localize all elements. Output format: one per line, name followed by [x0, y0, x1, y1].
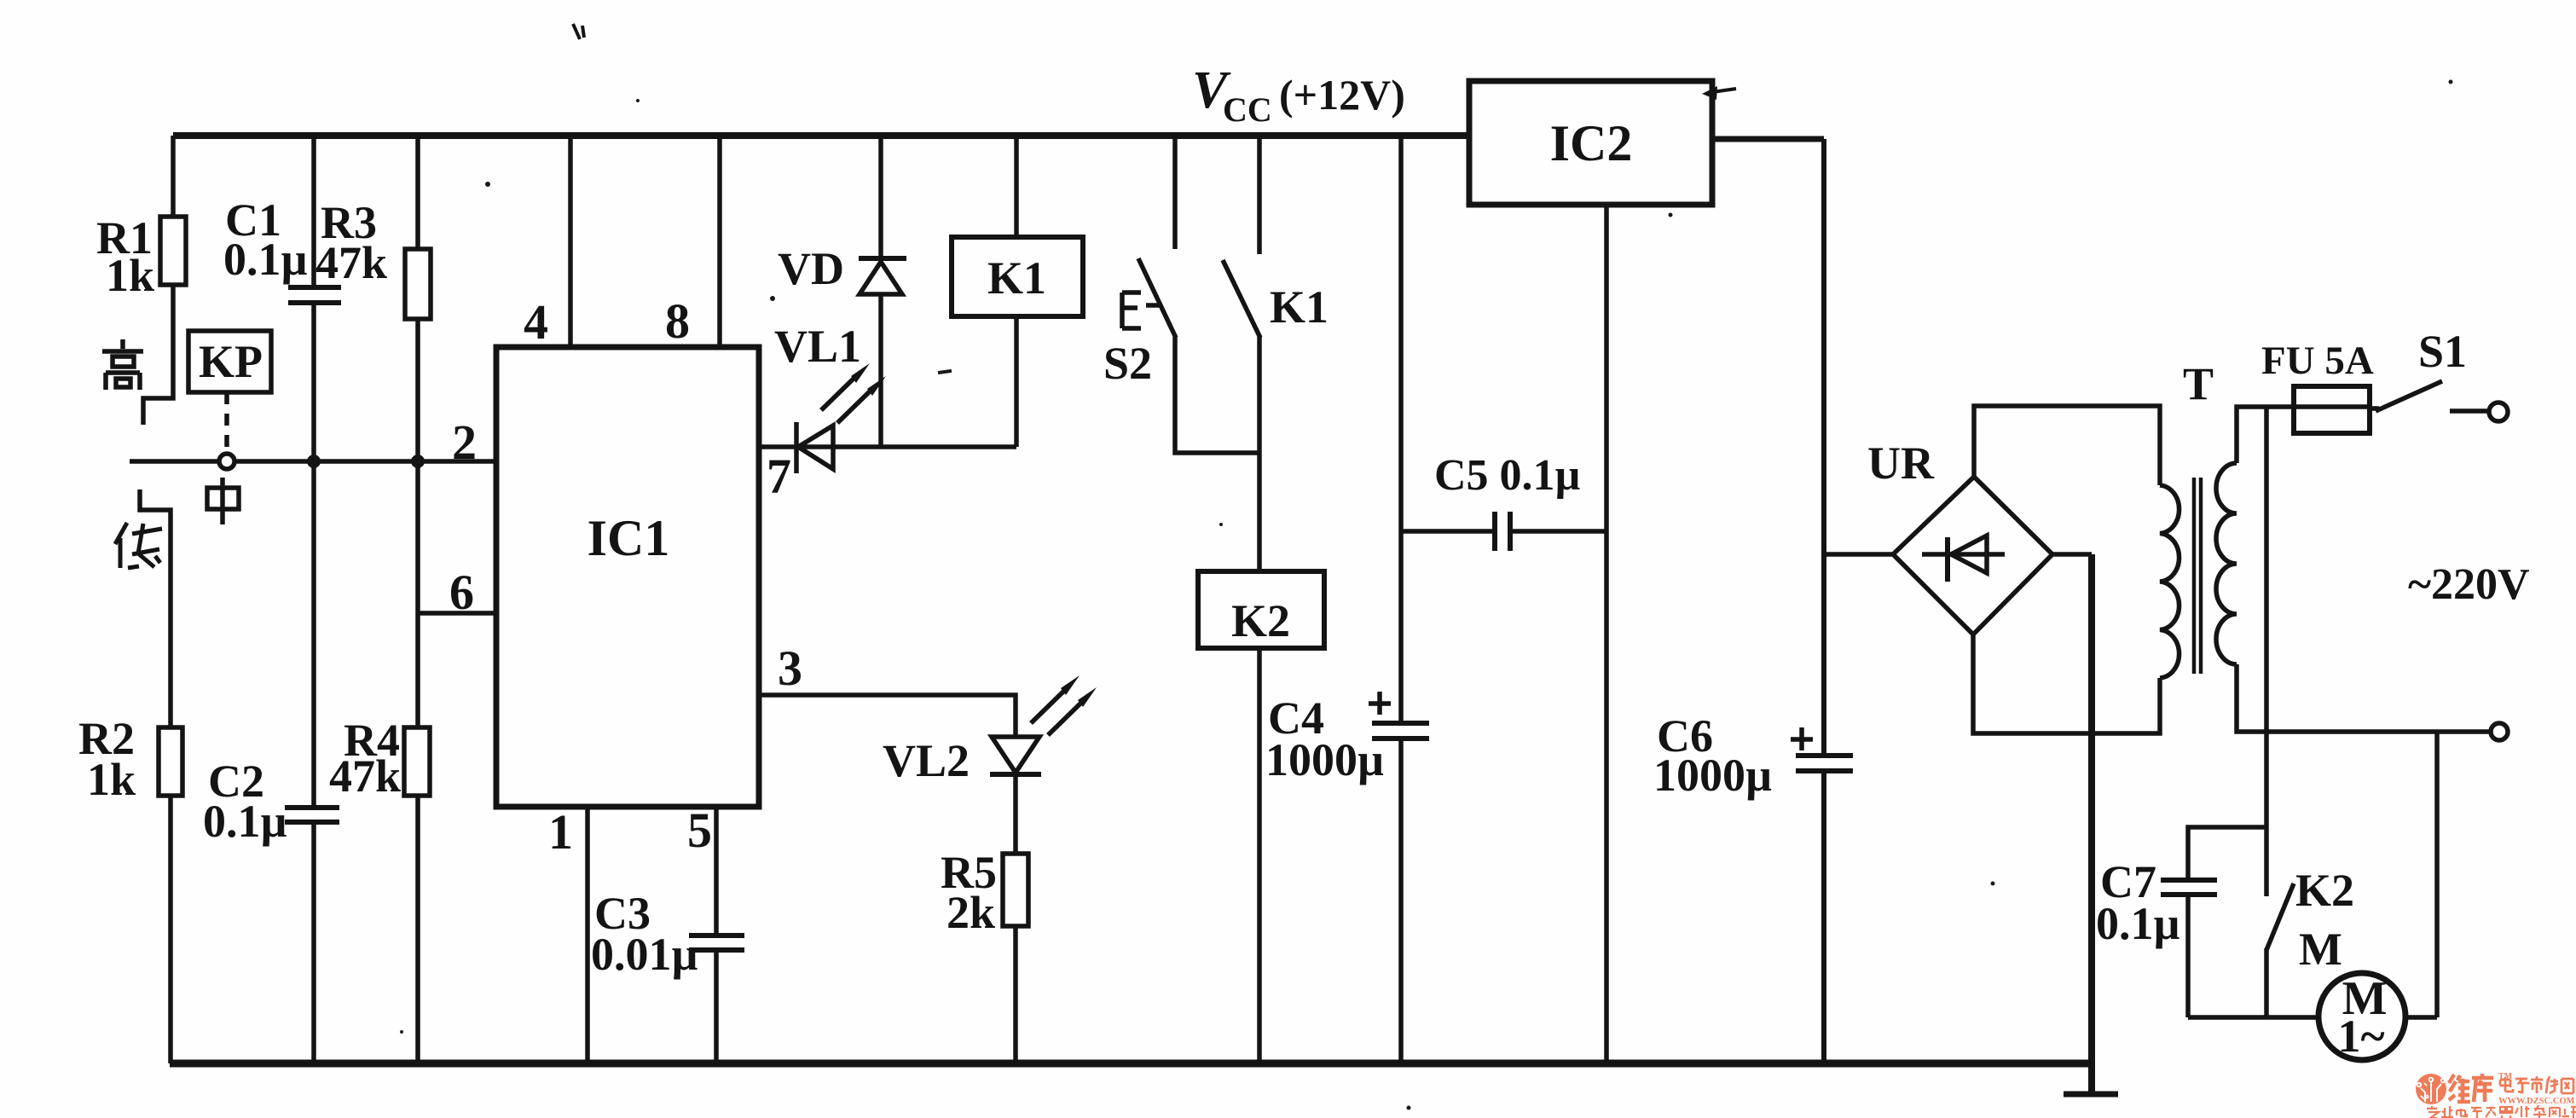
svg-text:47k: 47k	[329, 750, 401, 802]
svg-text:S2: S2	[1103, 338, 1152, 389]
wire motor loop bottom	[2188, 1015, 2437, 1020]
relay coil K2	[1198, 571, 1324, 1063]
svg-text:4: 4	[524, 294, 548, 350]
svg-text:2k: 2k	[946, 887, 995, 938]
svg-text:WWW.DZSC.COM: WWW.DZSC.COM	[2498, 1097, 2575, 1106]
led VL2	[883, 675, 1097, 854]
resistor R4	[329, 461, 430, 1063]
svg-text:1k: 1k	[106, 250, 154, 301]
svg-text:K2: K2	[2295, 865, 2354, 916]
diode VD	[778, 136, 906, 447]
watermark 维库 logo circle	[2416, 1074, 2446, 1104]
watermark TM	[2498, 1072, 2513, 1081]
svg-text:1~: 1~	[2337, 1011, 2384, 1062]
wire IC1 pin 1	[548, 804, 588, 1063]
watermark www.dzsc.com	[2498, 1097, 2575, 1106]
node 高 high contact label	[102, 339, 143, 390]
regulator IC2	[1469, 81, 1736, 205]
svg-text:VD: VD	[778, 243, 844, 294]
svg-text:VL2: VL2	[883, 735, 970, 786]
svg-text:T: T	[2183, 358, 2214, 409]
wire IC2 ground pin	[1604, 205, 1609, 1063]
capacitor C6	[1653, 139, 1853, 1063]
svg-text:K1: K1	[1270, 281, 1329, 333]
wire ground stem	[2088, 554, 2095, 1094]
capacitor C1	[223, 136, 341, 461]
svg-text:2: 2	[452, 414, 477, 470]
capacitor C7	[2096, 827, 2266, 1017]
ground	[2064, 1092, 2118, 1098]
wire lower terminal down to motor	[2434, 732, 2440, 1017]
svg-text:CC: CC	[1223, 90, 1272, 129]
resistor R2	[78, 713, 182, 1063]
op-amp IC1	[496, 347, 759, 807]
resistor R1	[96, 136, 186, 425]
svg-text:1000µ: 1000µ	[1653, 750, 1772, 801]
svg-text:~220V: ~220V	[2408, 560, 2530, 609]
svg-text:1k: 1k	[87, 754, 136, 805]
svg-text:VL1: VL1	[774, 321, 861, 372]
svg-text:1: 1	[548, 804, 573, 860]
sensor KP box	[188, 331, 271, 452]
svg-text:IC1: IC1	[588, 510, 670, 566]
svg-text:0.1µ: 0.1µ	[223, 234, 308, 285]
transformer T core	[2183, 358, 2214, 674]
wire bridge left to C6 rail	[1824, 552, 1895, 557]
transformer T secondary winding	[2216, 463, 2237, 664]
svg-text:1000µ: 1000µ	[1265, 734, 1384, 785]
stray scan mark top	[573, 24, 584, 39]
led VL1	[774, 321, 886, 473]
wire IC2 output right rail	[1712, 136, 1824, 142]
svg-text:UR: UR	[1867, 437, 1935, 489]
svg-text:IC2: IC2	[1550, 115, 1633, 171]
motor M	[2299, 924, 2405, 1062]
capacitor C4	[1265, 136, 1429, 1063]
svg-text:KP: KP	[199, 336, 263, 387]
resistor R3	[315, 136, 431, 461]
transformer T primary winding	[2160, 485, 2179, 678]
svg-text:S1: S1	[2418, 326, 2467, 377]
svg-text:C5 0.1µ: C5 0.1µ	[1434, 451, 1581, 500]
svg-text:3: 3	[778, 640, 802, 696]
wire bridge bottom to primary	[1973, 634, 2160, 733]
wire bottom ground rail	[170, 1060, 2092, 1068]
svg-text:0.1µ: 0.1µ	[203, 796, 287, 847]
wire IC1 pin 6	[418, 565, 496, 620]
watermark 电子市场网 small characters	[2500, 1076, 2573, 1093]
svg-text:M: M	[2299, 924, 2342, 975]
wire top rail Vcc	[173, 132, 1469, 139]
relay coil K1	[952, 136, 1083, 447]
node 中 middle contact label	[207, 478, 239, 524]
wire IC1 pin 8	[665, 136, 720, 349]
svg-text:47k: 47k	[315, 237, 387, 288]
scan noise specks	[400, 80, 2453, 1110]
wire fuse junction down to K2 contact	[2264, 407, 2269, 896]
wire bridge top to primary	[1974, 406, 2160, 485]
switch contact K2	[2266, 865, 2354, 1017]
wire low contact to R2	[140, 489, 171, 727]
node ~220V label	[2408, 560, 2530, 609]
svg-text:0.01µ: 0.01µ	[591, 929, 698, 980]
resistor R5	[941, 847, 1028, 1063]
node 低 low contact label	[115, 523, 162, 568]
svg-text:7: 7	[767, 449, 791, 504]
capacitor C3	[591, 802, 744, 1063]
watermark 维库 characters	[2449, 1074, 2493, 1102]
wire IC1 pin 3 to VL2	[759, 640, 1016, 737]
svg-text:K2: K2	[1231, 595, 1290, 646]
node junction dot R3	[411, 455, 425, 468]
switch S2	[1103, 136, 1259, 453]
svg-text:8: 8	[665, 293, 690, 349]
node Vcc label	[1192, 61, 1405, 129]
node junction dot C1	[307, 455, 321, 468]
svg-text:(+12V): (+12V)	[1279, 71, 1405, 119]
wire selector common to IC1 pin2	[130, 459, 496, 464]
wire secondary bottom to lower terminal	[2237, 664, 2508, 740]
capacitor C5	[1401, 451, 1606, 551]
wire bridge right to ground stem	[2051, 552, 2092, 557]
wire secondary top to fuse	[2237, 407, 2294, 463]
svg-text:6: 6	[449, 565, 474, 620]
wire IC1 pin 7 to K1 coil	[759, 447, 1016, 504]
bridge rectifier UR	[1867, 437, 2052, 634]
switch contact K1	[1223, 136, 1329, 571]
svg-text:FU 5A: FU 5A	[2261, 339, 2374, 383]
svg-text:0.1µ: 0.1µ	[2096, 898, 2180, 949]
capacitor C2	[203, 461, 339, 1063]
svg-text:5: 5	[687, 802, 712, 858]
wire IC1 pin 4	[524, 136, 570, 350]
svg-text:K1: K1	[987, 252, 1046, 304]
node pin 2 label	[452, 414, 477, 470]
fuse FU 5A	[2261, 339, 2374, 433]
switch S1	[2370, 326, 2508, 421]
node selector wiper circle	[219, 454, 234, 469]
watermark bottom slogan 专业电子元器件交易网站	[2427, 1105, 2576, 1118]
